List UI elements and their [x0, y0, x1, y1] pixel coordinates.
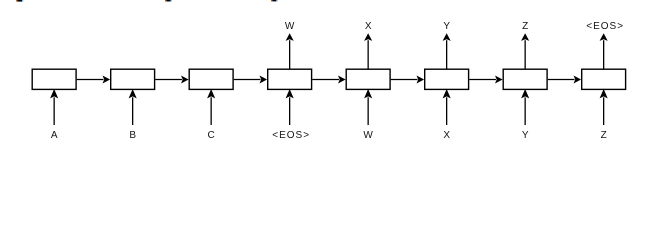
output arrow &lt;EOS&gt; from cell 8	[600, 33, 608, 68]
svg-text:C: C	[208, 130, 215, 141]
input arrow X into cell 6	[443, 89, 451, 125]
wire arrow cell3 to cell4	[234, 76, 267, 84]
output arrow W from cell 4	[286, 33, 294, 68]
RNN cell box 4	[268, 69, 312, 89]
RNN cell box 8	[582, 69, 626, 89]
wire arrow cell1 to cell2	[77, 76, 110, 84]
wire arrow cell5 to cell6	[391, 76, 424, 84]
input arrow C into cell 3	[207, 89, 215, 125]
wire arrow cell2 to cell3	[155, 76, 188, 84]
svg-text:W: W	[285, 21, 295, 32]
RNN cell box 6	[425, 69, 469, 89]
svg-text:B: B	[129, 130, 136, 141]
wire arrow cell6 to cell7	[469, 76, 502, 84]
svg-text:Z: Z	[522, 21, 528, 32]
cropped text remnant 3	[271, 0, 278, 1]
svg-text:X: X	[443, 130, 450, 141]
svg-text:Y: Y	[522, 130, 529, 141]
RNN cell box 7	[503, 69, 547, 89]
svg-text:Y: Y	[443, 21, 450, 32]
input arrow B into cell 2	[129, 89, 137, 125]
RNN cell box 5	[346, 69, 390, 89]
output arrow Y from cell 6	[443, 33, 451, 68]
output arrow X from cell 5	[364, 33, 372, 68]
cropped text remnant 1	[16, 0, 23, 2]
svg-text:<EOS>: <EOS>	[586, 21, 624, 32]
RNN cell box 3	[189, 69, 233, 89]
input arrow A into cell 1	[50, 89, 58, 125]
input arrow Y into cell 7	[521, 89, 529, 125]
svg-text:A: A	[51, 130, 58, 141]
input arrow Z into cell 8	[600, 89, 608, 125]
RNN cell box 1	[32, 69, 76, 89]
RNN cell box 2	[111, 69, 155, 89]
input arrow W into cell 5	[364, 89, 372, 125]
wire arrow cell7 to cell8	[548, 76, 581, 84]
wire arrow cell4 to cell5	[312, 76, 345, 84]
svg-text:<EOS>: <EOS>	[272, 130, 310, 141]
cropped text remnant 2	[165, 0, 172, 2]
svg-text:X: X	[365, 21, 372, 32]
output arrow Z from cell 7	[521, 33, 529, 68]
svg-text:Z: Z	[601, 130, 607, 141]
input arrow &lt;EOS&gt; into cell 4	[286, 89, 294, 125]
svg-text:W: W	[363, 130, 373, 141]
